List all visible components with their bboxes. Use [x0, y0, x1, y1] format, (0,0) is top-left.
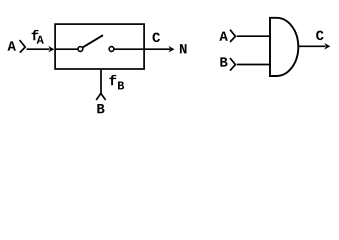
label f of f_B	[109, 75, 116, 85]
switch lever	[83, 35, 103, 47]
wire gate output	[299, 45, 326, 47]
node B label (left diagram)	[97, 104, 104, 113]
gate input node A label	[219, 32, 227, 41]
node C label (left diagram)	[153, 33, 160, 43]
gate input node B label	[220, 57, 227, 66]
wire B stem below box	[100, 69, 102, 94]
arrowhead into box	[48, 46, 54, 53]
switch right contact	[109, 47, 114, 52]
wire inside box to left contact	[55, 48, 78, 50]
gate output node C label	[316, 31, 323, 41]
node N label	[180, 44, 187, 53]
input chevron for node A	[20, 40, 26, 53]
arrowhead gate output	[324, 43, 330, 50]
wire A to switch box	[27, 48, 50, 50]
arrowhead at N	[168, 46, 174, 53]
input chevron for node B	[96, 93, 105, 100]
input chevron gate A	[230, 30, 235, 42]
subscript B of f_B	[118, 82, 124, 90]
wire B into gate	[237, 64, 270, 66]
subscript A of f_A	[37, 36, 44, 44]
wire from right contact out to N	[114, 48, 170, 50]
input chevron gate B	[230, 58, 235, 71]
node A (left diagram input label)	[8, 41, 16, 50]
switch left contact	[78, 47, 83, 52]
wire A into gate	[237, 35, 270, 37]
AND gate U1	[270, 18, 298, 76]
switch box	[55, 24, 144, 69]
label f of f_A	[32, 30, 39, 40]
